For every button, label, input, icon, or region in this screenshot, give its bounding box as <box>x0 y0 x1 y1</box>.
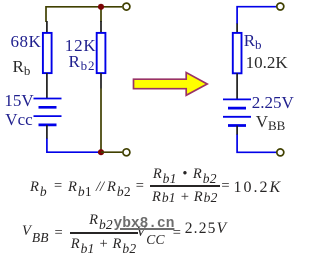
watermark ybx8.cn <box>114 217 175 232</box>
label Vcc <box>5 111 32 128</box>
battery Vcc plate short 1 <box>39 106 57 109</box>
wire top right circuit (blue) <box>237 7 276 24</box>
wire junction to bottom-left terminal <box>101 151 122 153</box>
resistor Rb2 <box>97 33 106 73</box>
label 10.2K <box>246 54 288 71</box>
pin Rb2 bottom <box>100 73 102 89</box>
formula 1: Rb = Rb1 // Rb2 = (Rb1·Rb2)/(Rb1+Rb2) = 10.2K <box>30 180 47 195</box>
formula 2: VBB = Rb2/(Rb1+Rb2) Vcc = 2.25V <box>22 224 49 239</box>
pin Rb2 top <box>100 21 102 34</box>
pin battery bottom <box>46 125 48 139</box>
battery VBB plate long 2 <box>223 116 251 118</box>
junction dot top <box>98 4 104 10</box>
label 15V <box>4 92 33 109</box>
terminal circle top left-circuit <box>123 3 130 10</box>
label 12K <box>65 37 97 54</box>
wire Rb2 down to bottom junction <box>100 89 102 153</box>
terminal circle top right-circuit <box>277 3 284 10</box>
label Rb right <box>244 32 262 49</box>
label Rb left <box>13 58 31 75</box>
battery Vcc plate long 1 <box>34 98 62 100</box>
junction dot bottom <box>98 149 104 155</box>
pin battery VBB bottom <box>236 126 238 135</box>
wire top horizontal left circuit <box>46 7 122 22</box>
battery VBB plate short 2 <box>228 124 246 127</box>
wire battery to bottom junction (blue) <box>47 139 101 153</box>
pin Rb bottom to battery <box>46 73 48 99</box>
fraction 2 <box>70 213 138 252</box>
terminal circle bottom left-circuit <box>123 149 130 156</box>
wire top stub above Rb2 <box>100 7 102 22</box>
battery VBB plate long 1 <box>223 98 251 100</box>
label 2.25V <box>252 94 294 111</box>
pin Rb top <box>46 21 48 34</box>
battery Vcc plate long 2 <box>34 115 62 117</box>
pin Rb(right) top <box>236 24 238 34</box>
label Rb2 <box>69 53 96 70</box>
terminal circle bottom right-circuit <box>277 149 284 156</box>
battery Vcc plate short 2 <box>39 124 57 127</box>
label 68K <box>11 33 42 50</box>
wire bottom right circuit (blue) <box>237 135 276 153</box>
label VBB <box>256 113 286 130</box>
arrow <box>134 73 208 96</box>
resistor Rb <box>43 33 52 73</box>
pin Rb(right) bottom to battery <box>236 73 238 99</box>
fraction 1 <box>150 167 220 205</box>
battery VBB plate short 1 <box>228 107 246 110</box>
resistor Rb right <box>233 33 242 73</box>
